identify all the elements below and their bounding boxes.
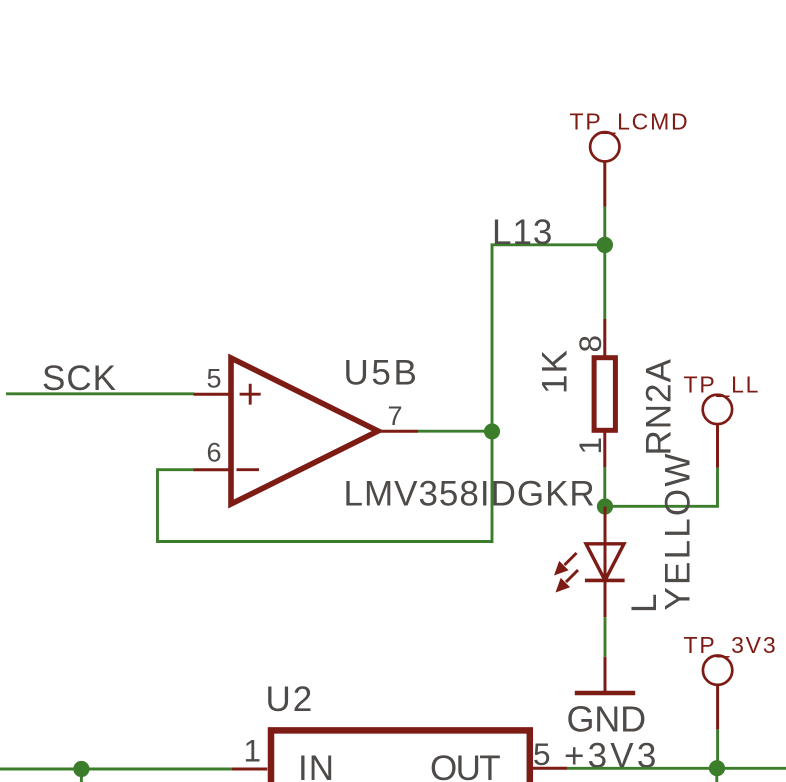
wire net SCK (6, 392, 194, 395)
test point TP_LCMD pin stub (603, 162, 606, 207)
svg-text:LMV358IDGKR: LMV358IDGKR (344, 475, 596, 514)
test point TP_LL circle (703, 395, 732, 424)
LED D wire through body (604, 544, 607, 581)
svg-text:OUT: OUT (430, 749, 500, 782)
wire input net left (0, 768, 232, 771)
regulator U2 body (271, 730, 530, 782)
LED cathode pin stub (604, 580, 607, 617)
LED emission arrow 1 (554, 553, 577, 576)
wire op-amp output to node (418, 430, 492, 433)
regulator U2 pin 1 stub (232, 768, 268, 771)
svg-text:U2: U2 (266, 680, 315, 719)
svg-text:IN: IN (298, 749, 335, 782)
op-amp pin 6 stub (194, 468, 230, 471)
op-amp minus input marker (237, 468, 260, 471)
svg-text:7: 7 (388, 401, 403, 431)
op-amp plus input marker (240, 384, 261, 405)
test point TP_LCMD circle (590, 132, 619, 161)
svg-text:TP_LCMD: TP_LCMD (570, 109, 690, 135)
test point TP_3V3 pin stub (716, 685, 719, 729)
svg-text:6: 6 (207, 438, 222, 468)
test point TP_3V3 circle (703, 656, 732, 685)
LED emission arrow 2 (556, 570, 579, 593)
op-amp U5A pin 5 stub (194, 393, 230, 396)
LED D cathode bar (585, 579, 625, 583)
resistor RN2A pin 1 stub (603, 430, 606, 467)
svg-text:5: 5 (533, 736, 551, 772)
LED D pin stub anode (604, 507, 607, 544)
wire +3V3 drop (715, 768, 718, 782)
wire net +3V3 (567, 767, 786, 770)
resistor RN2A pin 8 stub (603, 319, 606, 357)
svg-text:L13: L13 (492, 213, 553, 252)
junction node LED anode (597, 498, 613, 514)
regulator U2 pin 5 stub (532, 767, 567, 770)
op-amp U5B body (231, 358, 378, 504)
wire feedback net: pin6 to output column (158, 245, 605, 542)
svg-text:SCK: SCK (42, 359, 117, 398)
svg-text:1: 1 (244, 732, 262, 768)
svg-text:8: 8 (572, 335, 608, 353)
junction node input net (73, 761, 89, 777)
test point TP_LL pin stub (716, 424, 719, 468)
wire node to resistor RN2A pin 8 (603, 245, 606, 319)
ground GND symbol bar (575, 691, 635, 696)
wire input net drop (80, 769, 83, 782)
svg-text:YELLOW: YELLOW (659, 451, 698, 610)
svg-text:GND: GND (567, 699, 646, 740)
LED D body triangle (586, 544, 624, 581)
svg-text:U5B: U5B (344, 354, 420, 393)
wire LED cathode to GND (604, 617, 607, 657)
svg-text:1K: 1K (536, 349, 575, 394)
op-amp pin 7 output stub (378, 430, 418, 433)
junction node L13/TP_LCMD/RN2A (597, 237, 613, 253)
svg-text:1: 1 (572, 437, 608, 455)
wire resistor pin1 to LED node (603, 467, 606, 507)
svg-text:RN2A: RN2A (640, 358, 679, 455)
ground GND pin stub (604, 657, 607, 692)
resistor RN2A body (594, 358, 615, 431)
wire TP_3V3 to +3V3 node (716, 729, 719, 768)
wire LED node to TP_LL corner (605, 468, 718, 507)
junction node output/feedback (484, 423, 500, 439)
wire node to TP_LCMD (603, 207, 606, 246)
junction node +3V3 (709, 760, 725, 776)
svg-text:5: 5 (207, 364, 222, 394)
svg-text:TP_LL: TP_LL (684, 372, 761, 398)
svg-text:TP_3V3: TP_3V3 (684, 632, 778, 658)
